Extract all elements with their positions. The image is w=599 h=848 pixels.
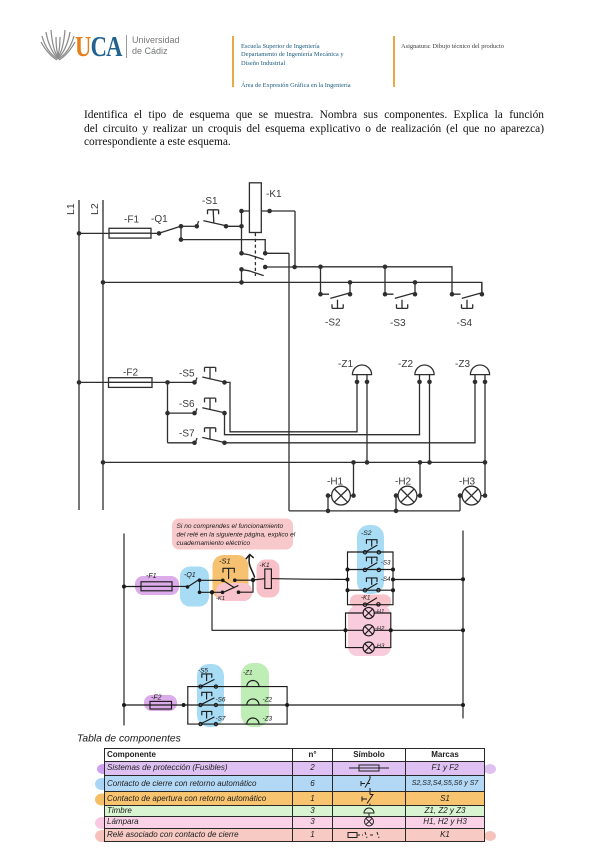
svg-text:-Z3: -Z3 (455, 359, 470, 370)
svg-text:-H2: -H2 (375, 626, 385, 632)
svg-text:-S2: -S2 (325, 318, 341, 329)
svg-text:-S7: -S7 (216, 716, 226, 723)
svg-text:-S5: -S5 (179, 369, 195, 380)
svg-text:Si no comprendes el funcionami: Si no comprendes el funcionamiento (177, 523, 284, 530)
svg-text:del relé en la siguiente págin: del relé en la siguiente página, explico… (177, 532, 296, 539)
svg-text:-Q1: -Q1 (184, 572, 196, 579)
svg-text:-S4: -S4 (457, 318, 473, 329)
svg-text:L2: L2 (89, 203, 101, 215)
svg-text:-Z2: -Z2 (263, 697, 273, 704)
svg-text:-H3: -H3 (375, 644, 385, 650)
svg-text:-Z1: -Z1 (243, 670, 253, 677)
svg-text:Tabla de componentes: Tabla de componentes (77, 734, 181, 745)
svg-text:-Z3: -Z3 (263, 716, 273, 723)
svg-text:-S4: -S4 (381, 576, 391, 583)
svg-text:-K1: -K1 (216, 596, 225, 602)
svg-text:-F2: -F2 (151, 695, 162, 702)
svg-text:-Z2: -Z2 (398, 359, 413, 370)
svg-text:cuadernamiento eléctrico: cuadernamiento eléctrico (177, 540, 251, 547)
svg-text:-Z1: -Z1 (338, 359, 353, 370)
svg-text:-S6: -S6 (179, 399, 195, 410)
svg-text:-H2: -H2 (395, 477, 412, 488)
svg-text:-F1: -F1 (124, 215, 139, 226)
svg-text:-H1: -H1 (327, 477, 344, 488)
svg-text:-F2: -F2 (123, 368, 138, 379)
svg-text:-S3: -S3 (381, 560, 391, 567)
svg-text:-S3: -S3 (390, 318, 406, 329)
svg-text:-H1: -H1 (375, 609, 384, 615)
svg-text:-K1: -K1 (260, 562, 271, 569)
svg-text:-S1: -S1 (202, 196, 218, 207)
svg-text:-K1: -K1 (266, 189, 282, 200)
svg-text:-S5: -S5 (198, 668, 208, 675)
svg-text:-F1: -F1 (146, 573, 157, 580)
svg-text:-S6: -S6 (216, 697, 226, 704)
svg-text:-S2: -S2 (361, 530, 372, 537)
svg-text:-H3: -H3 (459, 477, 476, 488)
svg-text:L1: L1 (65, 203, 77, 215)
svg-text:-Q1: -Q1 (151, 214, 168, 225)
svg-text:-K1: -K1 (361, 596, 370, 602)
svg-text:-S7: -S7 (179, 429, 195, 440)
svg-text:-S1: -S1 (219, 557, 231, 566)
